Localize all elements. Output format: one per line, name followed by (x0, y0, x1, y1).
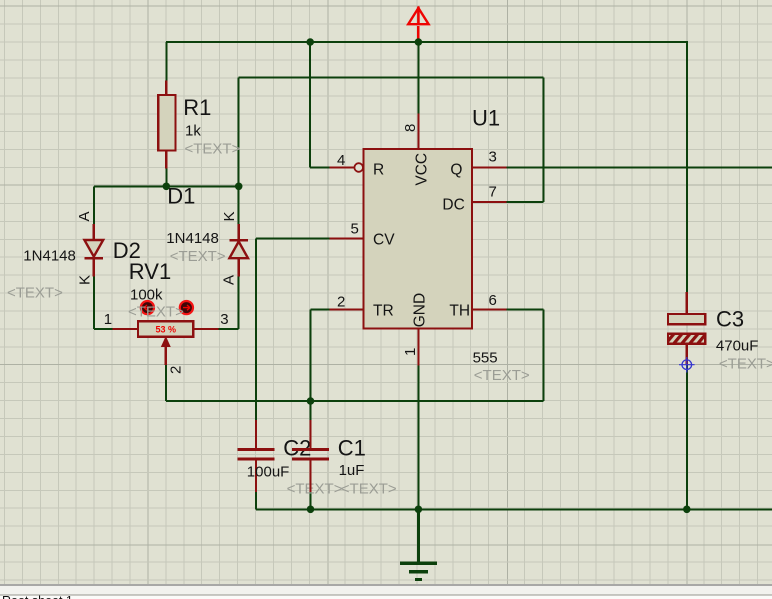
resistor R1 (158, 81, 175, 169)
svg-text:RV1: RV1 (129, 259, 171, 284)
wire D2 top (93, 186, 95, 224)
U1 pin 4 stub and bubble (329, 163, 363, 172)
label U1 value 555 (473, 350, 498, 367)
ground symbol (400, 563, 437, 579)
button RV1 decrement (141, 301, 154, 314)
label C3 text (719, 356, 772, 373)
status bar (0, 584, 772, 599)
label C3 ref (716, 307, 744, 332)
svg-text:4: 4 (337, 152, 345, 169)
label RV1 ref (129, 259, 171, 284)
label U1 pin name VCC (413, 153, 430, 186)
wire C1 bottom (310, 492, 312, 509)
label U1 pin number 8 (402, 124, 419, 132)
label C2 ref (283, 436, 311, 461)
svg-text:C3: C3 (716, 307, 744, 332)
label U1 pin number 6 (489, 292, 497, 309)
label U1 pin number 7 (489, 183, 497, 200)
label D1 text (170, 248, 226, 265)
wire TR left (311, 309, 330, 311)
svg-text:100uF: 100uF (247, 464, 290, 481)
label D1 pin A (220, 275, 237, 285)
label U1 pin name DC (442, 196, 464, 213)
wire D1 top vertical to DC rail (238, 78, 240, 187)
wire DC down to pin 7 (507, 78, 544, 203)
capacitor C1 (292, 420, 329, 492)
svg-text:VCC: VCC (413, 153, 430, 186)
label RV1 value (130, 287, 163, 304)
label C1 value (339, 462, 365, 479)
wire ground symbol stem (417, 509, 420, 563)
svg-text:TR: TR (373, 303, 394, 320)
power symbol VCC arrow (408, 7, 428, 43)
node junction power (415, 38, 423, 46)
label U1 pin name GND (412, 293, 429, 327)
wire TH down (543, 310, 545, 402)
svg-text:2: 2 (167, 366, 184, 374)
label D2 pin K (77, 275, 94, 285)
label D2 pin A (76, 211, 93, 221)
svg-text:1k: 1k (185, 123, 201, 140)
wire ground rail (256, 508, 772, 510)
wire D1 bottom to RV1 pin3 (218, 276, 238, 329)
U1 pin 2 stub (329, 308, 363, 310)
label RV1 pin 1 (104, 311, 112, 328)
label U1 pin name TR (373, 303, 394, 320)
svg-text:53 %: 53 % (156, 325, 177, 335)
label U1 pin name R (373, 162, 384, 179)
svg-text:A: A (220, 275, 237, 285)
label U1 pin number 3 (489, 149, 497, 166)
svg-text:A: A (76, 211, 93, 221)
svg-text:1uF: 1uF (339, 462, 365, 479)
label RV1 pin 3 (220, 311, 228, 328)
svg-text:Q: Q (450, 162, 462, 179)
wire C1 top (310, 401, 312, 420)
label U1 pin number 4 (337, 152, 345, 169)
label U1 text (474, 367, 530, 384)
wire trigger/threshold horizontal (166, 400, 544, 402)
wire D1 top (238, 186, 240, 224)
svg-text:3: 3 (220, 311, 228, 328)
label R1 ref (183, 95, 211, 120)
label U1 pin number 2 (337, 294, 345, 311)
node junction reset branch (306, 38, 314, 46)
svg-text:470uF: 470uF (716, 338, 759, 355)
svg-text:7: 7 (489, 183, 497, 200)
svg-text:<TEXT>: <TEXT> (185, 141, 241, 158)
svg-text:1: 1 (104, 311, 112, 328)
label C2 value (247, 464, 290, 481)
wire VCC top rail (166, 41, 688, 43)
svg-text:C1: C1 (338, 435, 366, 460)
svg-text:U1: U1 (472, 106, 500, 131)
label RV1 pin 2 (167, 366, 184, 374)
U1 pin 8 stub (417, 114, 419, 150)
label U1 pin number 5 (351, 221, 359, 238)
label D1 pin K (221, 211, 238, 221)
label U1 ref (472, 106, 500, 131)
label R1 text (185, 141, 241, 158)
button RV1 increment (180, 301, 193, 314)
svg-text:R1: R1 (183, 95, 211, 120)
svg-text:Root sheet 1: Root sheet 1 (2, 594, 73, 599)
wire CV down to C2 (255, 239, 257, 421)
label C1 text (341, 481, 397, 498)
wire reset vertical (310, 42, 329, 168)
wire C3 top rail (686, 42, 688, 292)
potentiometer RV1 body (138, 321, 193, 336)
svg-text:<TEXT>: <TEXT> (128, 304, 184, 321)
potentiometer RV1 pin 1 stub (113, 328, 139, 330)
node C3 origin marker (679, 357, 695, 373)
U1 pin 7 stub (472, 201, 507, 203)
U1 pin 5 stub (329, 237, 363, 239)
svg-text:R: R (373, 162, 384, 179)
svg-text:5: 5 (351, 221, 359, 238)
svg-text:DC: DC (442, 196, 464, 213)
svg-text:<TEXT>: <TEXT> (170, 248, 226, 265)
node junction C1 ground (307, 506, 315, 514)
svg-text:<TEXT>: <TEXT> (474, 367, 530, 384)
label D1 value (166, 230, 219, 247)
svg-text:GND: GND (412, 293, 429, 327)
svg-text:<TEXT>: <TEXT> (7, 284, 63, 301)
wire Q pin 3 to right edge (507, 167, 772, 169)
label C1 ref (338, 435, 366, 460)
svg-text:D1: D1 (167, 183, 195, 208)
node junction GND pin (415, 506, 423, 514)
label U1 pin name TH (449, 303, 470, 320)
node junction C3 ground (683, 506, 691, 514)
diode D2 (84, 224, 103, 276)
node junction R1 bottom (163, 183, 171, 191)
wire R1 bottom (165, 169, 167, 187)
label C2 text (287, 481, 343, 498)
node junction diode D1 top (235, 183, 243, 191)
wire VCC pin 8 down (417, 42, 419, 114)
wire R1/diode horizontal (94, 185, 239, 187)
label U1 pin name Q (450, 162, 462, 179)
svg-text:TH: TH (449, 303, 470, 320)
svg-text:3: 3 (489, 149, 497, 166)
potentiometer RV1 wiper arrow (162, 337, 170, 365)
svg-text:8: 8 (402, 124, 419, 132)
svg-text:K: K (77, 275, 94, 285)
node junction TR/C1 (307, 397, 315, 405)
wire TR down (310, 310, 312, 402)
label RV1 text (128, 304, 184, 321)
U1 pin 3 stub (472, 166, 507, 168)
svg-text:1: 1 (402, 348, 419, 356)
diode D1 (229, 224, 248, 276)
svg-text:CV: CV (373, 232, 395, 249)
wire 555 pin 1 down (417, 366, 419, 510)
wire CV left (256, 238, 329, 240)
wire R1 top (165, 42, 167, 81)
wire DC horizontal rail (239, 77, 544, 79)
svg-text:K: K (221, 211, 238, 221)
svg-text:<TEXT>: <TEXT> (719, 356, 772, 373)
label D2 text (7, 284, 63, 301)
label RV1 percent (156, 325, 177, 335)
svg-text:<TEXT>: <TEXT> (341, 481, 397, 498)
wire TH right (507, 309, 544, 311)
capacitor C2 (237, 420, 274, 492)
capacitor C3 electrolytic (668, 292, 705, 365)
svg-text:<TEXT>: <TEXT> (287, 481, 343, 498)
label C3 value (716, 338, 759, 355)
label D2 ref (113, 238, 141, 263)
wire RV1 wiper down (165, 365, 167, 401)
wire C3 bottom (686, 365, 688, 510)
label D1 ref (167, 183, 195, 208)
label U1 pin number 1 (402, 348, 419, 356)
potentiometer RV1 pin 3 stub (193, 328, 218, 330)
svg-text:1N4148: 1N4148 (23, 248, 76, 265)
svg-text:2: 2 (337, 294, 345, 311)
label R1 value (185, 123, 201, 140)
label U1 pin name CV (373, 232, 395, 249)
wire C2 bottom (255, 492, 257, 509)
U1 pin 1 stub (417, 329, 419, 366)
U1 pin 6 stub (472, 308, 507, 310)
op-amp U1 555 body (364, 149, 473, 329)
svg-text:6: 6 (489, 292, 497, 309)
wire D2 bottom to RV1 pin1 (94, 276, 113, 329)
label D2 value (23, 248, 76, 265)
svg-text:555: 555 (473, 350, 498, 367)
svg-text:1N4148: 1N4148 (166, 230, 219, 247)
